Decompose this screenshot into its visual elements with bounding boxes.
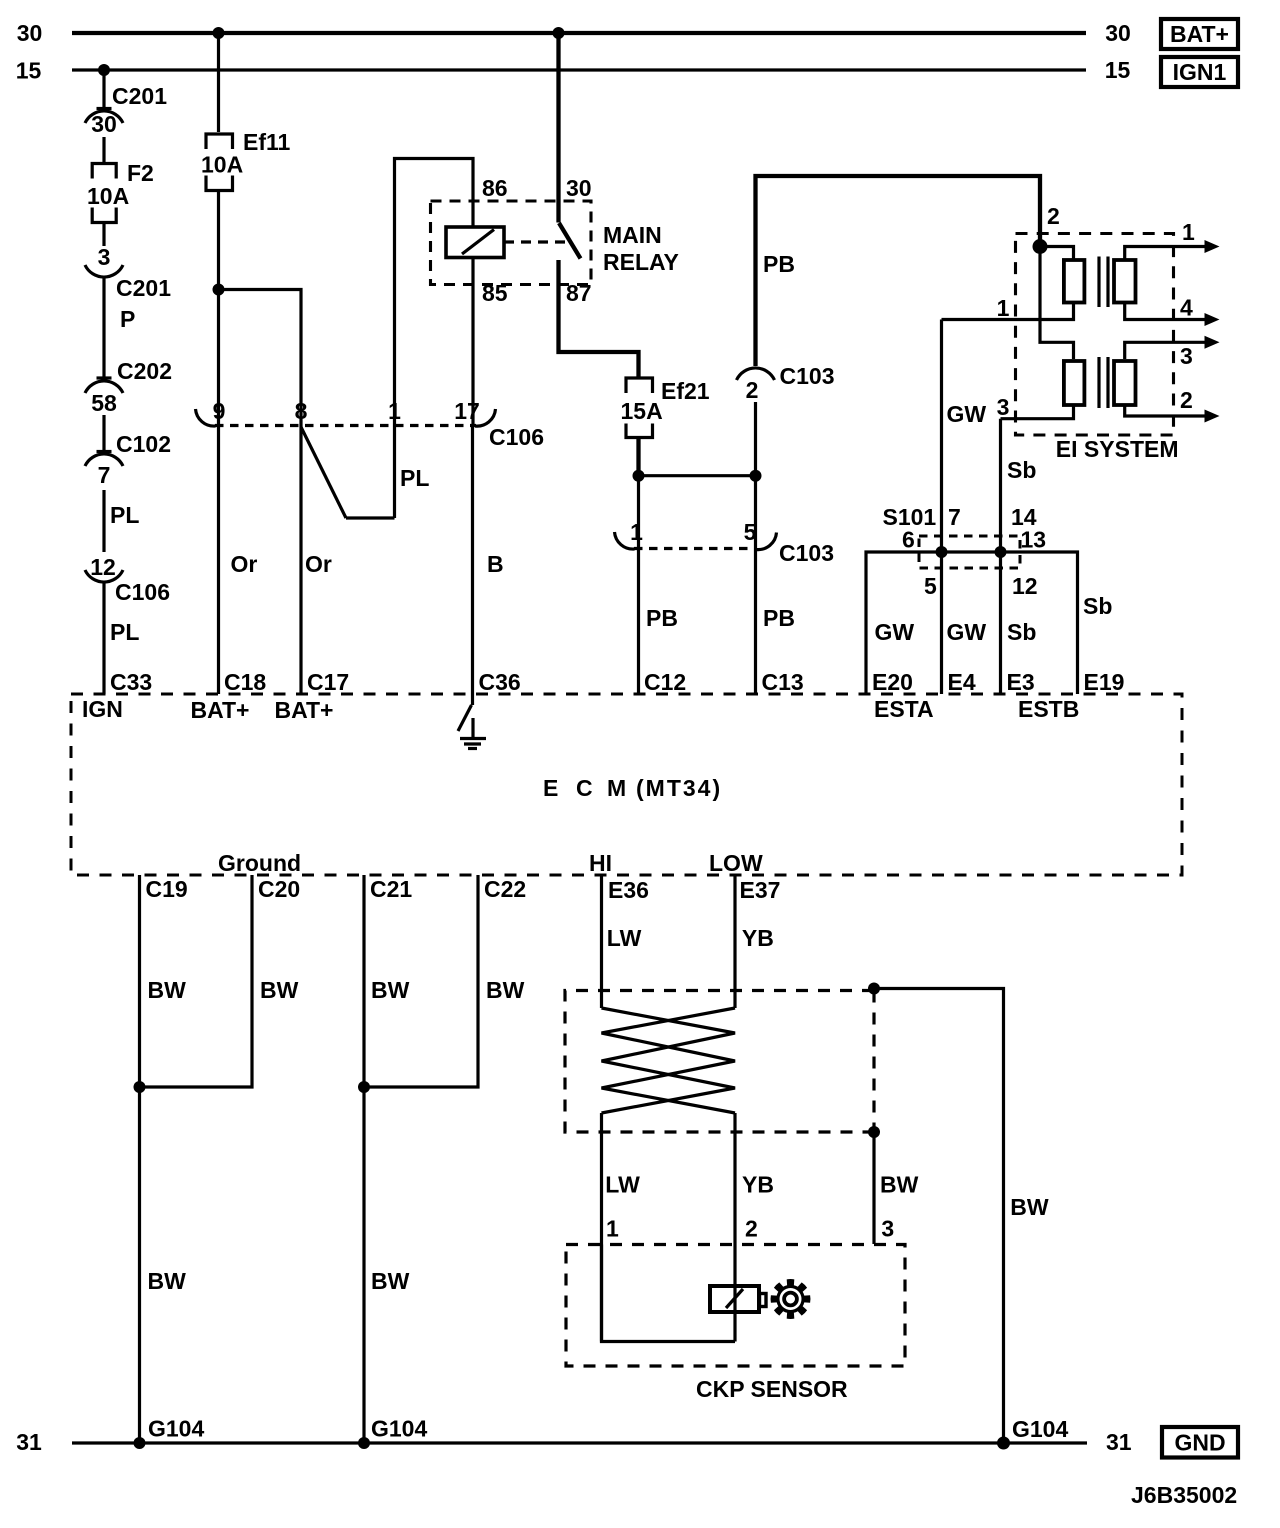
CKP inner loop wire (602, 1245, 736, 1342)
svg-text:30: 30 (566, 175, 592, 201)
svg-text:5: 5 (924, 573, 937, 599)
svg-text:87: 87 (566, 280, 592, 306)
relay pin 87 wire (559, 260, 639, 378)
svg-text:BW: BW (371, 1268, 410, 1294)
node: G104 at C21 (358, 1437, 370, 1449)
svg-text:15: 15 (16, 58, 42, 84)
svg-text:31: 31 (16, 1429, 42, 1455)
svg-text:2: 2 (745, 1216, 758, 1242)
node: bus30 / Ef11 junction (213, 27, 225, 39)
wire Or C106-8 to ECM C17 (301, 426, 332, 695)
svg-text:ESTB: ESTB (1018, 696, 1079, 722)
svg-text:C202: C202 (117, 358, 172, 384)
svg-text:BW: BW (880, 1172, 919, 1198)
svg-text:PL: PL (110, 619, 139, 645)
splice S101 dashed box (919, 536, 1020, 568)
svg-text:1: 1 (997, 295, 1010, 321)
CKP sensor dashed box (566, 1245, 905, 1367)
wire YB to CKP pin 2 (735, 1113, 774, 1342)
wire Ef11 to C106 pin 9 (217, 191, 220, 426)
svg-text:GW: GW (947, 619, 987, 645)
bus 31 G104 (72, 1441, 1087, 1444)
wire GW EI-1 to S101-7 (942, 320, 987, 553)
connector C202 pin 58 (85, 358, 172, 416)
wire crossover C106-1 to pin8 (301, 426, 429, 519)
wire PB C103-1 to ECM C12 (639, 549, 678, 695)
svg-text:12: 12 (90, 554, 116, 580)
svg-text:BW: BW (260, 977, 299, 1003)
coil T2 core (1097, 357, 1100, 408)
svg-text:7: 7 (98, 462, 111, 488)
svg-text:Ef21: Ef21 (661, 378, 710, 404)
svg-text:2: 2 (1047, 203, 1060, 229)
wire junction to C103 pin 1 (637, 476, 640, 549)
svg-text:30: 30 (1105, 20, 1131, 46)
wire P (104, 278, 135, 377)
svg-text:C201: C201 (112, 83, 167, 109)
wire B C106-17 to ECM C36 (473, 426, 504, 695)
svg-text:BW: BW (1010, 1194, 1049, 1220)
svg-text:C33: C33 (110, 669, 152, 695)
svg-text:2: 2 (1180, 387, 1193, 413)
node: S101 junction A (936, 546, 948, 558)
svg-text:BW: BW (371, 977, 410, 1003)
svg-text:3: 3 (98, 244, 111, 270)
svg-text:12: 12 (1012, 573, 1038, 599)
svg-text:C106: C106 (115, 579, 170, 605)
svg-text:C102: C102 (116, 431, 171, 457)
svg-text:C17: C17 (307, 669, 349, 695)
svg-text:F2: F2 (127, 160, 154, 186)
wire Sb S101-12 to ECM E3 (999, 552, 1002, 694)
wire spark output 3 (1125, 336, 1220, 369)
svg-text:G104: G104 (371, 1416, 427, 1442)
connector C102 pin 7 (85, 431, 171, 488)
svg-text:30: 30 (17, 20, 43, 46)
svg-text:5: 5 (744, 519, 757, 545)
svg-text:3: 3 (1180, 343, 1193, 369)
bus 30 (72, 31, 1086, 35)
wire LW from E36 (602, 875, 642, 1008)
wire Ef21 to junction (636, 438, 640, 476)
svg-text:C12: C12 (644, 669, 686, 695)
node: C19/C20 junction (134, 1081, 146, 1093)
svg-text:PB: PB (646, 605, 678, 631)
node: shield junction bottom (868, 1126, 880, 1138)
svg-text:G104: G104 (1012, 1416, 1068, 1442)
svg-text:Ef11: Ef11 (243, 129, 291, 155)
terminal box BAT+ (1161, 19, 1238, 49)
node: G104 at shield (997, 1437, 1010, 1450)
ignition coil T1 primary winding (942, 247, 1085, 320)
svg-text:1: 1 (606, 1216, 619, 1242)
svg-text:BAT+: BAT+ (191, 697, 250, 723)
bus 15 (72, 68, 1086, 71)
svg-text:EI SYSTEM: EI SYSTEM (1056, 436, 1179, 462)
node: PB junction right (750, 470, 762, 482)
svg-text:HI: HI (589, 850, 612, 876)
svg-text:C13: C13 (762, 669, 804, 695)
wire BW shield drain (874, 1132, 919, 1244)
svg-text:15A: 15A (621, 398, 663, 424)
svg-text:J6B35002: J6B35002 (1131, 1482, 1237, 1508)
svg-text:17: 17 (454, 398, 480, 424)
ECM (MT34) dashed box (71, 694, 1182, 875)
wire relay 85 to C106 pin 17 (471, 258, 474, 426)
twisted pair wires (602, 1008, 736, 1113)
svg-text:C19: C19 (146, 876, 188, 902)
svg-text:30: 30 (91, 111, 117, 137)
svg-text:6: 6 (902, 527, 915, 553)
svg-text:C36: C36 (479, 669, 521, 695)
svg-text:G104: G104 (148, 1416, 204, 1442)
wire Or C106-9 to ECM C18 (219, 426, 258, 695)
node: bus15 / C201 junction (98, 64, 110, 76)
wire branch to pin 8 (219, 290, 302, 426)
svg-text:B: B (487, 551, 504, 577)
svg-text:8: 8 (295, 398, 308, 424)
svg-text:15: 15 (1105, 57, 1131, 83)
wire PB C103-5 to ECM C13 (756, 549, 795, 695)
svg-text:E36: E36 (608, 877, 649, 903)
fuse Ef11 10A (201, 129, 291, 191)
node: EI feed junction (1033, 239, 1048, 254)
wire F2 to C201 pin 3 (102, 223, 105, 247)
wire BW C22 (364, 875, 525, 1087)
fuse F2 10A (87, 160, 154, 223)
wire BW C20 (140, 875, 299, 1087)
ground inside ECM at C36 (458, 694, 486, 749)
wire splice bus (866, 552, 1078, 694)
fuse Ef21 15A (621, 378, 710, 438)
svg-text:Sb: Sb (1007, 457, 1036, 483)
svg-text:MAIN: MAIN (603, 222, 662, 248)
relay coil (446, 227, 504, 258)
wire BW C21 to G104 (364, 875, 410, 1443)
svg-text:4: 4 (1180, 295, 1193, 321)
svg-text:C201: C201 (116, 275, 171, 301)
main relay dashed box (431, 201, 592, 285)
svg-text:GND: GND (1174, 1430, 1225, 1456)
svg-text:C18: C18 (224, 669, 266, 695)
CKP pickup element (710, 1286, 766, 1312)
coil T1 core (1097, 257, 1100, 308)
svg-text:GW: GW (947, 401, 987, 427)
svg-text:C103: C103 (780, 363, 835, 389)
svg-text:PB: PB (763, 605, 795, 631)
connector C201 pin 3 (85, 244, 171, 301)
wire LW to CKP pin 1 (602, 1113, 641, 1342)
wire PL to ECM C33 (104, 582, 139, 694)
svg-text:YB: YB (742, 1172, 774, 1198)
wire spark output 2 (1125, 387, 1220, 423)
svg-text:13: 13 (1021, 527, 1047, 553)
wire GW S101-5 to ECM E4 (940, 552, 943, 694)
wire Ef11 drop from bus30 (217, 33, 220, 132)
wire PL (104, 490, 139, 552)
svg-text:86: 86 (482, 175, 508, 201)
svg-text:C22: C22 (484, 876, 526, 902)
EI system dashed box (1016, 234, 1174, 436)
node: S101 junction B (995, 546, 1007, 558)
svg-text:3: 3 (881, 1216, 894, 1242)
svg-text:C20: C20 (258, 876, 300, 902)
svg-text:1: 1 (1182, 219, 1195, 245)
connector row C106 pins 9 8 1 17 (196, 398, 544, 450)
svg-text:E20: E20 (872, 669, 913, 695)
svg-text:BW: BW (148, 1268, 187, 1294)
node: PB junction left (633, 470, 645, 482)
wire relay 86 feed (395, 159, 474, 426)
wire junction link (639, 474, 756, 477)
connector row C103 pins 1 5 (615, 519, 834, 566)
ignition coil T2 secondary winding (1114, 361, 1136, 405)
wire C103-2 to junction (754, 402, 757, 476)
svg-text:C103: C103 (779, 540, 834, 566)
svg-text:BW: BW (148, 977, 187, 1003)
svg-text:Or: Or (231, 551, 258, 577)
connector C201 pin 30 (85, 83, 167, 137)
svg-text:E4: E4 (948, 669, 976, 695)
terminal box IGN1 (1161, 57, 1238, 87)
svg-text:C106: C106 (489, 424, 544, 450)
svg-text:ESTA: ESTA (874, 696, 934, 722)
node: Ef11 branch junction (213, 284, 225, 296)
svg-text:LOW: LOW (709, 850, 763, 876)
wire junction to C103 pin 5 (754, 476, 757, 549)
reluctor gear (771, 1279, 811, 1319)
svg-text:2: 2 (746, 377, 759, 403)
wire C201 to F2 (102, 137, 105, 164)
wire spark output 4 (1125, 295, 1220, 327)
svg-text:31: 31 (1106, 1429, 1132, 1455)
wire primary feed to T2 (1040, 247, 1074, 360)
wire bus15 to C201 (102, 70, 105, 108)
connector C103 pin 2 (737, 363, 835, 403)
svg-text:LW: LW (607, 925, 642, 951)
svg-text:10A: 10A (201, 152, 243, 178)
relay coil-contact dashed link (504, 240, 567, 243)
svg-text:BAT+: BAT+ (1170, 21, 1229, 47)
wire Sb EI-3 to S101-14 (1001, 419, 1037, 552)
svg-text:GW: GW (875, 619, 915, 645)
svg-text:IGN1: IGN1 (1173, 59, 1227, 85)
wire relay pin 30 from bus30 (556, 33, 560, 223)
wire BW shield to G104 (874, 989, 1049, 1444)
svg-text:Or: Or (305, 551, 332, 577)
svg-text:3: 3 (997, 394, 1010, 420)
svg-text:10A: 10A (87, 183, 129, 209)
svg-text:Sb: Sb (1007, 619, 1036, 645)
svg-text:1: 1 (630, 519, 643, 545)
svg-text:CKP SENSOR: CKP SENSOR (696, 1376, 848, 1402)
svg-text:E3: E3 (1007, 669, 1035, 695)
wire C202 to C102 (102, 415, 105, 451)
svg-text:7: 7 (948, 504, 961, 530)
svg-text:PL: PL (110, 502, 139, 528)
ignition coil T2 primary winding (1001, 361, 1085, 419)
svg-text:BAT+: BAT+ (275, 697, 334, 723)
wire spark output 1 (1125, 219, 1220, 259)
svg-text:PB: PB (763, 251, 795, 277)
ignition coil T1 secondary winding (1114, 260, 1136, 303)
svg-text:E19: E19 (1084, 669, 1125, 695)
node: C21/C22 junction (358, 1081, 370, 1093)
wire PB top feed to EI (756, 176, 1041, 366)
wire YB from E37 (735, 875, 774, 1008)
svg-text:YB: YB (742, 925, 774, 951)
svg-text:LW: LW (605, 1172, 640, 1198)
svg-text:E37: E37 (740, 877, 781, 903)
twisted pair shield dashed box (565, 991, 874, 1133)
svg-text:IGN: IGN (82, 696, 123, 722)
connector C106 pin 12 (85, 554, 170, 605)
svg-text:9: 9 (213, 398, 226, 424)
svg-text:RELAY: RELAY (603, 249, 679, 275)
svg-text:85: 85 (482, 280, 508, 306)
wire BW C19 to G104 (140, 875, 187, 1443)
svg-text:C21: C21 (370, 876, 412, 902)
node: bus30 / main relay junction (553, 27, 565, 39)
svg-text:Sb: Sb (1083, 593, 1112, 619)
svg-text:PL: PL (400, 465, 429, 491)
node: G104 at C19 (134, 1437, 146, 1449)
terminal box GND (1162, 1427, 1238, 1458)
svg-text:P: P (120, 306, 135, 332)
svg-text:BW: BW (486, 977, 525, 1003)
relay switch arm (559, 223, 581, 259)
svg-text:58: 58 (91, 390, 117, 416)
svg-text:Ground: Ground (218, 850, 301, 876)
node: shield junction top (868, 983, 880, 995)
